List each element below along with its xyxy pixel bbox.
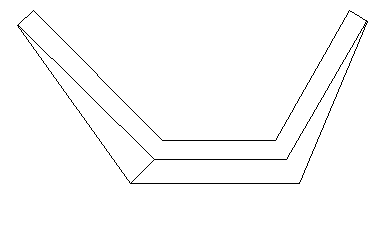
left arm near outer edge B-E xyxy=(17,25,131,184)
bottom-left bend edge D-E xyxy=(130,159,155,184)
left arm near inner edge B-D xyxy=(18,25,155,160)
right arm far inner edge F-I xyxy=(275,10,350,141)
right arm near outer edge H-J xyxy=(299,21,368,184)
top-right end edge I-J xyxy=(349,10,368,22)
bottom near inner edge D-G xyxy=(154,159,287,160)
right arm near inner edge G-J xyxy=(286,21,367,160)
left arm far inner edge A-C xyxy=(33,10,163,141)
bottom near outer edge E-H xyxy=(130,183,300,184)
top-left end edge A-B xyxy=(17,10,34,26)
bottom far inner edge C-F xyxy=(162,140,276,141)
